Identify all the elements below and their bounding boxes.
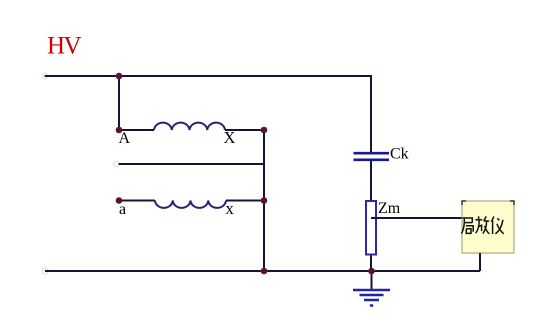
wire winding X lead-out (225, 129, 264, 131)
corner tick top-left (462, 201, 466, 205)
terminal ghost (middle wire left end) (114, 161, 120, 167)
svg-text:Ck: Ck (390, 146, 409, 163)
label 局 (drawn strokes) (461, 218, 473, 234)
wire top bus (45, 75, 372, 77)
detector box (PD detector) (462, 201, 514, 253)
inductor L2 (LV winding a-x) (155, 201, 226, 208)
capacitor Ck (354, 153, 390, 160)
wire winding a lead-in (119, 200, 155, 202)
node A (116, 127, 123, 134)
label 放 (drawn strokes) (475, 216, 489, 234)
wire right vertical bus X-x to bottom (263, 130, 265, 271)
node X junction (261, 127, 268, 134)
wire Zm to bottom bus (370, 256, 372, 272)
node x junction (261, 197, 268, 204)
label 仪 (drawn strokes) (491, 216, 503, 234)
junction (Zm / bottom bus / ground) (368, 268, 375, 275)
wire drop to winding A (118, 76, 120, 130)
inductor L1 (HV winding A-X) (154, 123, 225, 130)
wire capacitor to Zm (370, 161, 372, 200)
wire winding x lead-out (226, 200, 264, 202)
wire tap to detector (371, 217, 462, 219)
wire bottom bus (45, 270, 480, 272)
svg-text:Zm: Zm (378, 200, 401, 217)
svg-text:A: A (119, 130, 131, 147)
corner tick top-right (510, 201, 514, 205)
terminal ghost (top bus left end) (42, 73, 48, 79)
terminal ghost (bottom bus left end) (42, 268, 48, 274)
wire right drop to capacitor Ck (370, 75, 372, 152)
svg-text:a: a (119, 201, 126, 218)
svg-text:HV: HV (47, 33, 82, 60)
wire detector to bottom bus (479, 253, 481, 271)
svg-text:X: X (224, 128, 236, 147)
wire middle stub (119, 163, 265, 165)
junction (right bus / bottom bus) (261, 268, 268, 275)
wire winding A lead-in (119, 129, 154, 131)
node a (116, 197, 123, 204)
junction (top bus / drop) (116, 73, 123, 80)
svg-text:x: x (226, 199, 235, 218)
resistor Zm (measuring impedance) (366, 201, 376, 255)
ground (353, 271, 390, 306)
